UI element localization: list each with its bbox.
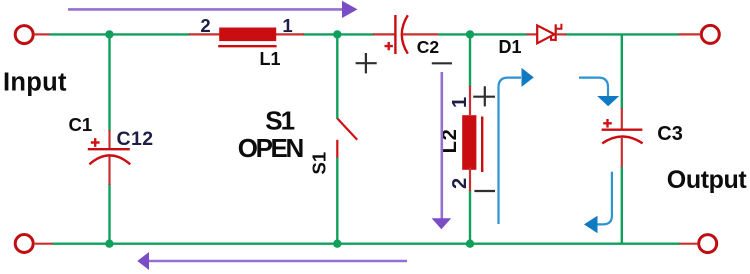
current arrow blue left up-right: [499, 78, 522, 224]
svg-text:Output: Output: [667, 166, 748, 194]
terminal input bottom: [15, 235, 33, 253]
capacitor C2 plate flat: [394, 15, 396, 54]
current arrow purple middle down: [440, 72, 443, 219]
junction dot top middle: [333, 30, 341, 38]
wire L2 vertical upper: [469, 34, 471, 87]
capacitor C1 plate flat: [88, 148, 130, 150]
inductor L2 core line: [481, 117, 483, 173]
svg-text:1: 1: [449, 97, 471, 108]
inductor L2 pin 2 wire: [469, 168, 471, 192]
inductor L2 body: [462, 115, 476, 170]
terminal output bottom: [699, 235, 717, 253]
junction dot bottom L2: [466, 240, 474, 248]
current arrow purple top: [68, 8, 343, 11]
terminal output top: [701, 25, 719, 43]
diode D1 pin right wire: [556, 33, 566, 35]
inductor L1 pin 1 wire: [276, 33, 305, 35]
inductor L1 core line: [218, 45, 276, 47]
wire top segment C: [438, 33, 527, 35]
diode D1 schottky top hook: [556, 24, 562, 29]
pin stub input bottom: [34, 243, 53, 245]
wire bottom: [52, 242, 680, 244]
svg-text:1: 1: [282, 15, 292, 36]
pin stub output top: [679, 33, 701, 35]
wire top segment A: [49, 33, 190, 35]
svg-text:2: 2: [200, 15, 210, 36]
current arrow purple bottom left: [149, 260, 408, 263]
junction dot top L2: [466, 30, 474, 38]
big minus annotation below C2: [432, 62, 452, 64]
svg-text:C12: C12: [117, 128, 154, 150]
capacitor C2 pin right wire: [403, 33, 439, 35]
svg-text:C2: C2: [417, 37, 440, 57]
wire left vertical lower: [108, 184, 110, 244]
big plus annotation left of C2: [356, 53, 377, 73]
wire C3 vertical upper: [621, 34, 623, 109]
polarity plus of C3: [603, 119, 612, 128]
current arrow blue right down-left: [597, 172, 612, 225]
wire top segment D: [565, 33, 679, 35]
wire switch vertical upper: [336, 34, 338, 119]
capacitor C3 plate curved: [602, 137, 642, 144]
svg-text:S1: S1: [265, 106, 294, 136]
capacitor C3 pin top wire: [621, 108, 623, 130]
terminal input top: [15, 26, 33, 44]
polarity plus of C2: [385, 42, 393, 50]
inductor L2 pin 1 wire: [469, 86, 471, 115]
svg-text:C1: C1: [69, 114, 93, 135]
capacitor C2 pin left wire: [373, 33, 395, 35]
svg-text:C3: C3: [657, 123, 683, 145]
wire switch vertical lower: [336, 157, 338, 244]
polarity plus of C1: [91, 138, 100, 147]
svg-text:2: 2: [449, 178, 471, 189]
junction dot top left: [105, 30, 113, 38]
svg-text:L1: L1: [260, 49, 281, 69]
junction dot bottom middle: [333, 240, 341, 248]
switch S1 lower contact stub: [336, 140, 338, 158]
diode D1 schottky bar: [555, 24, 557, 41]
diode D1 triangle: [537, 25, 554, 43]
capacitor C3 pin bottom wire: [621, 138, 623, 167]
current arrow blue middle right-down: [579, 78, 608, 97]
wire L2 vertical lower: [469, 190, 471, 244]
inductor L1 body: [219, 28, 276, 42]
capacitor C1 pin top wire: [108, 130, 110, 148]
pin stub output bottom: [680, 243, 699, 245]
switch S1 blade: [337, 119, 357, 140]
wire C3 vertical lower: [621, 166, 623, 244]
svg-text:S1: S1: [309, 152, 330, 175]
minus annotation near L2 bottom: [474, 190, 495, 192]
capacitor C2 plate curved: [402, 15, 408, 53]
plus annotation near L2 top: [473, 86, 495, 106]
svg-text:Input: Input: [3, 69, 67, 97]
junction dot bottom left: [105, 240, 113, 248]
capacitor C3 plate flat: [602, 128, 643, 130]
wire left vertical upper: [108, 34, 110, 131]
diode D1 pin left wire: [527, 33, 538, 35]
wire top segment B: [303, 33, 374, 35]
diode D1 schottky bottom hook: [551, 35, 556, 40]
svg-text:OPEN: OPEN: [238, 133, 304, 163]
svg-text:D1: D1: [499, 37, 522, 57]
pin stub input top: [34, 33, 50, 35]
inductor L1 pin 2 wire: [189, 33, 220, 35]
capacitor C1 pin bottom wire: [108, 157, 110, 186]
capacitor C1 plate curved: [89, 155, 130, 164]
